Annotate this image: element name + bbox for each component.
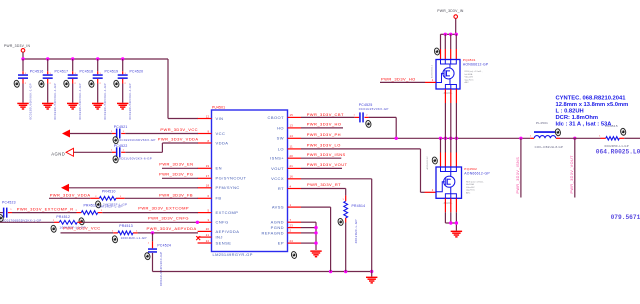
svg-text:3: 3	[208, 218, 210, 222]
net PWR_3D3V_VOUT vertical wire	[570, 138, 575, 197]
wire drain pins PQ4502	[441, 138, 457, 167]
net PWR_3D3V_PH wire (switch node)	[301, 132, 530, 138]
capacitor PC4521	[111, 125, 156, 144]
capacitor PC4517	[38, 59, 68, 120]
svg-text:0C0220U6DV6KK-1-GP: 0C0220U6DV6KK-1-GP	[78, 83, 82, 119]
svg-text:PC4517: PC4517	[55, 69, 69, 73]
svg-text:23: 23	[290, 223, 294, 227]
label inductor spec CYNTEC	[556, 96, 629, 128]
svg-text:VDDA: VDDA	[216, 140, 229, 145]
svg-text:PC4524: PC4524	[157, 244, 171, 248]
pin VOUT (21) right stub	[271, 164, 301, 171]
svg-text:SW: SW	[277, 136, 284, 141]
junction drain bar dots	[444, 33, 447, 36]
svg-text:PC4516: PC4516	[30, 69, 44, 73]
net PWR_3D3V_EN stub	[159, 162, 198, 169]
svg-text:PL4501: PL4501	[536, 121, 548, 125]
svg-text:PC4520: PC4520	[130, 69, 144, 73]
svg-text:19: 19	[206, 164, 210, 168]
svg-text:PWR_3D3V_VCC: PWR_3D3V_VCC	[160, 127, 198, 132]
svg-text:0C01U50V2KX-6-GP: 0C01U50V2KX-6-GP	[119, 157, 152, 161]
net PWR_3D3V_VDDA to FB wire	[49, 193, 198, 199]
svg-text:EXTCOMP: EXTCOMP	[216, 210, 239, 215]
ground label AGND arrow	[51, 148, 73, 156]
svg-text:RDS (on) <1.9mΩ ,: RDS (on) <1.9mΩ ,	[466, 180, 484, 183]
svg-text:VIN: VIN	[216, 116, 224, 121]
net PWR_3D3V_ISNS stub	[301, 152, 346, 158]
resistor PR4515 0.0025R	[599, 124, 640, 148]
svg-text:PWR_3D3V_CNFG: PWR_3D3V_CNFG	[148, 216, 189, 221]
svg-text:L : 0.82UH: L : 0.82UH	[556, 109, 584, 115]
wire ring to rail	[22, 52, 24, 59]
svg-text:Id=100A: Id=100A	[466, 183, 474, 186]
wire EP to vertical	[301, 242, 316, 244]
wire AGND to vertical	[301, 221, 316, 223]
eye marker PQ4501	[434, 47, 441, 55]
svg-text:PC4521: PC4521	[114, 125, 128, 129]
svg-text:SENSE: SENSE	[216, 240, 232, 245]
svg-text:AEP/VDDA: AEP/VDDA	[216, 229, 240, 234]
net PWR_3D3V_CBT wire	[301, 112, 396, 138]
net PWR_3D3V_RT wire	[301, 182, 346, 271]
svg-text:PR4510: PR4510	[102, 190, 116, 194]
svg-text:PWR_3D3V_IN: PWR_3D3V_IN	[437, 9, 464, 13]
svg-text:PG/SYNCOUT: PG/SYNCOUT	[216, 176, 247, 181]
svg-text:AON66612: AON66612	[430, 64, 433, 78]
ground under AGND group	[310, 250, 321, 257]
eye marker near EP	[291, 251, 298, 259]
svg-text:HO: HO	[277, 125, 284, 130]
svg-text:Id=100A: Id=100A	[465, 73, 473, 76]
svg-text:0002R5F-L1-GP: 0002R5F-L1-GP	[605, 144, 629, 148]
op-amp U1 PU4501 LM25149RGYR-GP body	[212, 106, 288, 258]
capacitor PC4524	[144, 233, 171, 286]
off-page arrow PFM/SYNC	[61, 184, 69, 192]
svg-text:18: 18	[206, 184, 210, 188]
svg-text:1: 1	[290, 203, 292, 207]
net PWR_3D3V_ISNS vertical wire	[516, 138, 521, 197]
svg-text:AON66612: AON66612	[426, 156, 429, 170]
svg-text:4: 4	[290, 184, 292, 188]
wire input rail	[22, 58, 168, 60]
junction source merge dots	[449, 221, 452, 224]
svg-text:INJ: INJ	[216, 235, 223, 240]
pin EP (24) right stub	[278, 239, 301, 246]
capacitor PC4520	[113, 59, 143, 120]
capacitor PC4516	[13, 59, 43, 120]
resistor PR4511	[76, 203, 123, 225]
junction PH dots	[395, 137, 398, 140]
svg-text:AGND: AGND	[271, 220, 284, 225]
resistor PR4512	[50, 215, 85, 233]
net PWR_3D3V_LO wire	[301, 143, 436, 193]
svg-text:0C022U16DV2KX-GP: 0C022U16DV2KX-GP	[159, 252, 163, 286]
wire AVSS route	[301, 207, 331, 271]
junction PH-ISNS	[519, 137, 522, 140]
svg-text:AON66612-GP: AON66612-GP	[463, 62, 489, 66]
pin PGND (23) right stub	[271, 223, 301, 230]
pin VIN (12) left stub	[198, 114, 224, 121]
svg-text:21: 21	[290, 164, 294, 168]
wire rail to VIN pin	[168, 118, 198, 120]
svg-text:VCCX: VCCX	[271, 176, 284, 181]
svg-text:PWR_3D3V_HO: PWR_3D3V_HO	[307, 122, 342, 127]
inductor L1 PL4501	[530, 121, 601, 149]
svg-text:24K9R2F-L-GP: 24K9R2F-L-GP	[99, 205, 123, 209]
svg-text:FB: FB	[216, 196, 222, 201]
off-page arrow VCC	[62, 130, 70, 138]
svg-text:PWR_3D3V_VDDA: PWR_3D3V_VDDA	[158, 137, 199, 142]
svg-text:20: 20	[290, 154, 294, 158]
pin REFAGND (2) right stub	[262, 229, 302, 236]
svg-text:PWR_3D3V_VOUT: PWR_3D3V_VOUT	[307, 162, 348, 167]
svg-text:12: 12	[206, 114, 210, 118]
ground under PQ4502	[451, 231, 462, 238]
svg-text:DCR: 1.8mOhm: DCR: 1.8mOhm	[556, 115, 599, 121]
svg-text:100KR2F-L1-GP: 100KR2F-L1-GP	[121, 236, 147, 240]
svg-text:VOUT: VOUT	[271, 166, 284, 171]
wire source pins PQ4502	[445, 198, 456, 230]
svg-text:24: 24	[290, 239, 294, 243]
net PWR_3D3V_HO stub	[301, 122, 343, 128]
svg-text:CNFG: CNFG	[216, 220, 229, 225]
svg-text:PWR_3D3V_HO: PWR_3D3V_HO	[381, 77, 416, 82]
wire analog ground bus	[153, 271, 372, 273]
svg-text:40K2R2F-L-GP: 40K2R2F-L-GP	[354, 219, 358, 243]
wire rail down to VIN	[167, 59, 169, 119]
svg-text:PWR_3D3V_ISNS: PWR_3D3V_ISNS	[516, 157, 520, 194]
capacitor PC4525	[354, 103, 389, 128]
ground under PC4517	[42, 103, 53, 110]
svg-text:ISNS+: ISNS+	[270, 156, 284, 161]
svg-text:14: 14	[290, 134, 294, 138]
no-connect X on INJ pin	[196, 236, 200, 240]
pin LO (11) right stub	[278, 145, 301, 152]
net PWR_3D3V_HO gate wire	[380, 77, 436, 83]
svg-text:PFM/SYNC: PFM/SYNC	[216, 185, 240, 190]
pin EN (19) left stub	[198, 164, 222, 171]
pin AGND (7) right stub	[271, 218, 301, 225]
net PWR_3D3V_PG stub	[159, 172, 198, 179]
svg-text:064.R0025.L0: 064.R0025.L0	[596, 148, 640, 155]
pin PG/SYNCOUT (17) left stub	[198, 174, 247, 181]
svg-text:PWR_3D3V_RT: PWR_3D3V_RT	[307, 182, 341, 187]
svg-text:0C0220U6DV6KK-1-GP: 0C0220U6DV6KK-1-GP	[53, 83, 57, 119]
svg-text:9: 9	[208, 129, 210, 133]
svg-text:PGND: PGND	[271, 225, 284, 230]
svg-text:Vds=40V: Vds=40V	[466, 187, 475, 189]
svg-text:PWR_3D3V_VDDA: PWR_3D3V_VDDA	[50, 193, 91, 198]
wire source pins PQ4501 to PH	[445, 89, 456, 138]
junction on CNFG row	[196, 221, 199, 224]
svg-text:5: 5	[208, 208, 210, 212]
svg-text:RDS (on) <1.9mΩ ,: RDS (on) <1.9mΩ ,	[465, 70, 483, 73]
eye marker PQ4502	[432, 156, 439, 164]
net PWR_3D3V_VDDA row	[74, 137, 199, 153]
svg-text:16: 16	[290, 175, 294, 179]
svg-text:PWR_3D3V_IN: PWR_3D3V_IN	[4, 44, 31, 48]
wire PFM/SYNC row	[69, 187, 198, 189]
label PQ4501 specs	[465, 70, 483, 84]
pin VCCX (16) right stub	[271, 175, 301, 182]
pin CBOOT (15) right stub	[268, 113, 301, 120]
svg-text:EP: EP	[278, 241, 284, 246]
svg-text:13: 13	[290, 124, 294, 128]
capacitor PC4523	[0, 200, 42, 222]
svg-text:PWR_3D3V_ISNS: PWR_3D3V_ISNS	[307, 152, 346, 157]
svg-text:PR4511: PR4511	[84, 203, 98, 207]
svg-text:PQ4502: PQ4502	[464, 167, 477, 171]
pin VCC (9) left stub	[198, 129, 226, 136]
pin CNFG (3) left stub	[198, 218, 229, 225]
svg-text:22: 22	[206, 239, 210, 243]
wire drain bar	[441, 33, 457, 35]
svg-text:6: 6	[208, 194, 210, 198]
svg-text:AEC: AEC	[466, 191, 471, 194]
svg-text:0C01U25V3KX-GP: 0C01U25V3KX-GP	[359, 107, 389, 111]
svg-text:PWR_3D3V_EXTCOMP_R: PWR_3D3V_EXTCOMP_R	[17, 207, 74, 212]
wire bus stub down	[371, 272, 373, 277]
svg-text:PWR_3D3V_LO: PWR_3D3V_LO	[307, 143, 341, 148]
svg-text:PWR_3D3V_EN: PWR_3D3V_EN	[159, 162, 193, 167]
eye marker PL4501	[555, 128, 562, 136]
svg-text:7: 7	[290, 218, 292, 222]
wire PGND to vertical	[301, 227, 316, 229]
svg-text:CYNTEC. 068.R8210.2041: CYNTEC. 068.R8210.2041	[556, 96, 627, 102]
pin RT (4) right stub	[278, 184, 301, 191]
svg-text:LM25149RGYR-GP: LM25149RGYR-GP	[213, 252, 253, 257]
svg-text:Qg=75nC: Qg=75nC	[466, 190, 475, 192]
label PQ4502 specs	[466, 180, 484, 194]
pin SENSE (22) left stub	[198, 239, 232, 246]
wire drain pins PQ4501	[441, 34, 457, 59]
resistor PR4513	[112, 224, 147, 243]
svg-text:AEC: AEC	[465, 81, 470, 84]
off-page ring PWR_3D3V_IN right	[454, 15, 458, 19]
svg-text:20: 20	[206, 227, 210, 231]
ground under PC4520	[117, 103, 128, 110]
svg-text:EN: EN	[216, 166, 222, 171]
svg-text:Qg=75nC: Qg=75nC	[465, 79, 474, 81]
svg-text:AVSS: AVSS	[272, 205, 284, 210]
svg-text:0C0220U16DV6KX-GP: 0C0220U16DV6KX-GP	[119, 138, 155, 142]
svg-text:0C0220U6DV6KK-1-GP: 0C0220U6DV6KK-1-GP	[128, 83, 132, 119]
pin AEP/VDDA (20) left stub	[198, 227, 240, 234]
svg-text:COIL-D82UH-8-GP: COIL-D82UH-8-GP	[535, 145, 564, 149]
pin INJ (21) left stub	[198, 233, 223, 240]
junction AGND vertical dots	[314, 226, 317, 229]
ground under PC4519	[92, 103, 103, 110]
svg-text:PC4518: PC4518	[80, 69, 94, 73]
pin PFM/SYNC (18) left stub	[198, 184, 240, 191]
svg-text:PWR_3D3V_FB: PWR_3D3V_FB	[159, 193, 193, 198]
svg-text:2: 2	[290, 229, 292, 233]
svg-text:PWR_3D3V_VOUT: PWR_3D3V_VOUT	[570, 155, 574, 194]
svg-text:PR4514: PR4514	[352, 204, 366, 208]
svg-text:PC4519: PC4519	[105, 69, 119, 73]
svg-text:0C0220U6DV6KK-1-GP: 0C0220U6DV6KK-1-GP	[103, 83, 107, 119]
wire REFAGND to vertical	[301, 232, 316, 234]
net PWR_3D3V_EXTCOMP_R wire	[12, 205, 198, 212]
eye marker PR4515	[620, 128, 627, 136]
svg-text:AON66612-GP: AON66612-GP	[464, 172, 490, 176]
svg-text:PWR_3D3V_VCC: PWR_3D3V_VCC	[63, 226, 101, 231]
svg-text:PR4513: PR4513	[119, 224, 133, 228]
pin HO (13) right stub	[277, 124, 301, 131]
pin FB (6) left stub	[198, 194, 222, 201]
svg-text:Idc : 31 A , Isat : 53A: Idc : 31 A , Isat : 53A	[556, 122, 613, 128]
off-page ring PWR_3D3V_IN left	[21, 49, 25, 53]
junction bus dots	[329, 270, 332, 273]
resistor PR4510	[95, 190, 127, 209]
resistor PR4514	[337, 199, 365, 244]
junction rail dots	[21, 57, 24, 60]
junction PH-VOUT	[573, 137, 576, 140]
svg-text:PWR_3D3V_CBT: PWR_3D3V_CBT	[307, 112, 344, 117]
ground under PC4518	[67, 103, 78, 110]
pin SW (14) right stub	[277, 134, 301, 141]
svg-text:PC4523: PC4523	[2, 200, 16, 204]
wire AGND vertical	[315, 222, 317, 250]
svg-text:PWR_3D3V_PG: PWR_3D3V_PG	[159, 172, 194, 177]
pin VDDA (8) left stub	[198, 139, 229, 146]
wire VCCX to bus	[301, 179, 372, 272]
svg-text:21: 21	[206, 233, 210, 237]
svg-text:CBOOT: CBOOT	[268, 115, 285, 120]
svg-text:12.8mm x 13.8mm x5.0mm: 12.8mm x 13.8mm x5.0mm	[556, 102, 629, 108]
svg-text:LO: LO	[278, 146, 284, 151]
net PWR_3D3V_CNFG wire	[0, 216, 198, 223]
pin AVSS (1) right stub	[272, 203, 301, 210]
svg-text:REFAGND: REFAGND	[262, 230, 285, 235]
pin EXTCOMP (5) left stub	[198, 208, 239, 215]
net PWR_3D3V_VCC to AEPVDDA wire	[61, 226, 199, 233]
svg-text:11: 11	[290, 145, 294, 149]
svg-text:VCC: VCC	[216, 131, 226, 136]
ground under PC4516	[17, 103, 28, 110]
svg-text:PWR_3D3V_EXTCOMP: PWR_3D3V_EXTCOMP	[138, 205, 189, 210]
pin ISNS+ (20) right stub	[270, 154, 301, 161]
capacitor PC4522	[111, 144, 152, 163]
svg-text:Vds=40V: Vds=40V	[465, 77, 474, 79]
net PWR_3D3V_VOUT stub	[301, 162, 348, 169]
svg-text:RT: RT	[278, 186, 284, 191]
junction AEPVDDA row	[151, 231, 154, 234]
svg-text:AGND: AGND	[51, 152, 65, 157]
wire ring down to drain bar	[455, 18, 457, 34]
svg-text:079.5671: 079.5671	[611, 214, 640, 221]
svg-text:PWR_3D3V_AEPVDDA: PWR_3D3V_AEPVDDA	[146, 226, 196, 231]
svg-text:15: 15	[290, 113, 294, 117]
svg-text:PR4512: PR4512	[56, 215, 70, 219]
svg-text:PU4501: PU4501	[212, 106, 225, 110]
net PWR_3D3V_VCC row	[70, 127, 198, 133]
ground at bus end	[366, 277, 377, 284]
capacitor PC4518	[63, 59, 93, 120]
svg-text:PC4522: PC4522	[114, 144, 128, 148]
transistor Q1 PQ4501 AON66612-GP	[436, 58, 489, 89]
svg-text:PWR_3D3V_PH: PWR_3D3V_PH	[307, 132, 341, 137]
transistor Q2 PQ4502 AON66612-GP	[436, 167, 490, 198]
svg-text:17: 17	[206, 174, 210, 178]
svg-text:8: 8	[208, 139, 210, 143]
capacitor PC4519	[88, 59, 118, 120]
svg-text:0C0220U6DV6KK-1-GP: 0C0220U6DV6KK-1-GP	[29, 83, 33, 119]
